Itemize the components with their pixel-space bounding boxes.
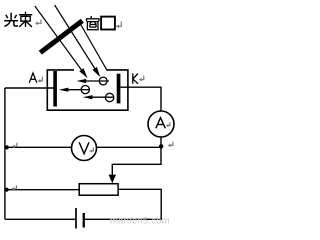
svg-text:manfen5.com: manfen5.com <box>110 216 170 227</box>
